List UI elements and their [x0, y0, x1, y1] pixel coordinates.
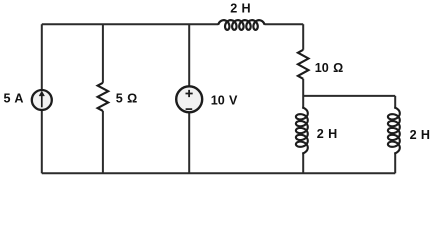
svg-text:2 H: 2 H	[230, 2, 250, 16]
wire middle horizontal	[303, 95, 395, 97]
wire left branch lower	[41, 110, 43, 173]
wire branch V1 upper	[188, 24, 190, 86]
inductor L1 2H top coil	[218, 20, 264, 30]
inductor L3 2H right coil	[388, 108, 400, 154]
inductor L2 2H middle coil	[296, 108, 308, 154]
wire left branch upper	[41, 24, 43, 89]
wire far-right upper	[394, 96, 396, 108]
wire branch R5 upper	[102, 24, 104, 83]
voltage source V1 minus sign	[186, 108, 193, 110]
resistor R2 10ohm zigzag	[298, 50, 309, 79]
svg-text:5 Ω: 5 Ω	[116, 91, 137, 105]
voltage source V1 plus sign	[186, 90, 193, 97]
current source I1 arrow head	[39, 91, 44, 96]
wire right branch upper	[302, 24, 304, 50]
current source I1 arrow shaft	[41, 95, 43, 107]
voltage source V1 circle	[176, 86, 202, 112]
current source I1 circle	[32, 90, 52, 110]
wire right branch mid	[302, 79, 304, 108]
wire right branch lower	[302, 154, 304, 174]
wire branch R5 lower	[102, 111, 104, 173]
svg-text:10 Ω: 10 Ω	[315, 61, 343, 75]
wire far-right lower	[394, 154, 396, 174]
wire top-left segment	[42, 23, 219, 25]
svg-text:10 V: 10 V	[211, 94, 238, 108]
resistor R1 5ohm zigzag	[98, 83, 109, 111]
svg-text:2 H: 2 H	[410, 128, 430, 142]
wire bottom	[42, 172, 395, 174]
wire branch V1 lower	[188, 112, 190, 173]
wire top-right segment	[265, 23, 304, 25]
svg-text:5 A: 5 A	[4, 92, 24, 106]
svg-text:2 H: 2 H	[317, 127, 337, 141]
